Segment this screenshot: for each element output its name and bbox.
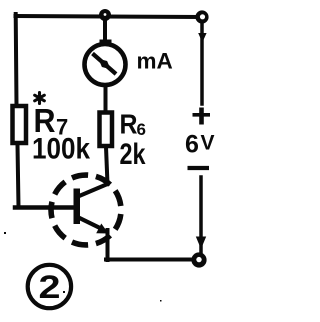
- svg-text:6: 6: [137, 120, 146, 139]
- wire right lower: [199, 177, 203, 252]
- scan specks: [4, 232, 162, 302]
- wire meter to R6: [104, 86, 108, 112]
- resistor R6: [100, 113, 113, 147]
- svg-text:R: R: [120, 109, 138, 140]
- wire right upper: [200, 23, 204, 104]
- label R7: [34, 102, 69, 140]
- node junction top (meter tap): [99, 9, 111, 21]
- current arrow lower right: [196, 237, 206, 250]
- wire top: [16, 16, 201, 17]
- svg-text:6: 6: [185, 130, 199, 158]
- label R6: [120, 109, 146, 140]
- svg-text:100k: 100k: [32, 133, 90, 166]
- terminal bottom-right: [191, 252, 206, 267]
- wire left: [16, 14, 19, 207]
- label 6V: [185, 130, 215, 158]
- svg-text:2: 2: [39, 269, 61, 305]
- transistor Q1 emitter lead with arrow: [79, 218, 109, 234]
- figure number 2 in circle: [28, 265, 71, 308]
- battery minus label: [188, 166, 210, 170]
- resistor R7: [13, 106, 27, 143]
- transistor Q1 dashed outline: [51, 175, 121, 245]
- current arrow upper right: [198, 33, 206, 43]
- meter M1: [85, 40, 126, 86]
- transistor Q1 base bar: [74, 189, 81, 225]
- wire R6 to collector junction: [106, 147, 108, 184]
- wire emitter down: [106, 230, 110, 260]
- wire base lead: [15, 205, 74, 210]
- wire meter branch upper: [103, 16, 107, 45]
- wire bottom: [106, 258, 192, 262]
- svg-text:V: V: [201, 132, 215, 155]
- svg-text:2k: 2k: [120, 138, 146, 171]
- terminal top-right: [195, 10, 208, 23]
- svg-text:mA: mA: [137, 49, 173, 74]
- battery plus label: [193, 108, 211, 125]
- transistor Q1 collector lead: [78, 184, 108, 197]
- label asterisk: [35, 93, 45, 104]
